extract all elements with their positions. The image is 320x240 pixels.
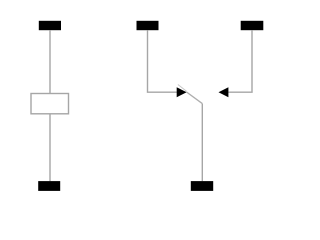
emitter line (diagonal, faint upper part) [178,85,187,92]
emitter line (diagonal) [187,92,203,104]
arrow (left emitter, pointing right) [177,87,187,97]
wire [49,30,51,93]
resistor R1 pad 2 (bottom) [38,181,60,191]
transistor Q1 pad 3 (top-right) [241,21,264,30]
wire [228,30,252,92]
resistor R1 pad 1 (top) [39,21,61,30]
wire [201,104,203,182]
transistor Q1 pad 1 (top-left) [137,21,159,30]
resistor R1 body [31,94,69,114]
wire [148,30,177,92]
wire [49,114,51,181]
transistor Q1 pad 2 (bottom) [191,181,213,191]
arrow (right, pointing left) [219,87,229,97]
